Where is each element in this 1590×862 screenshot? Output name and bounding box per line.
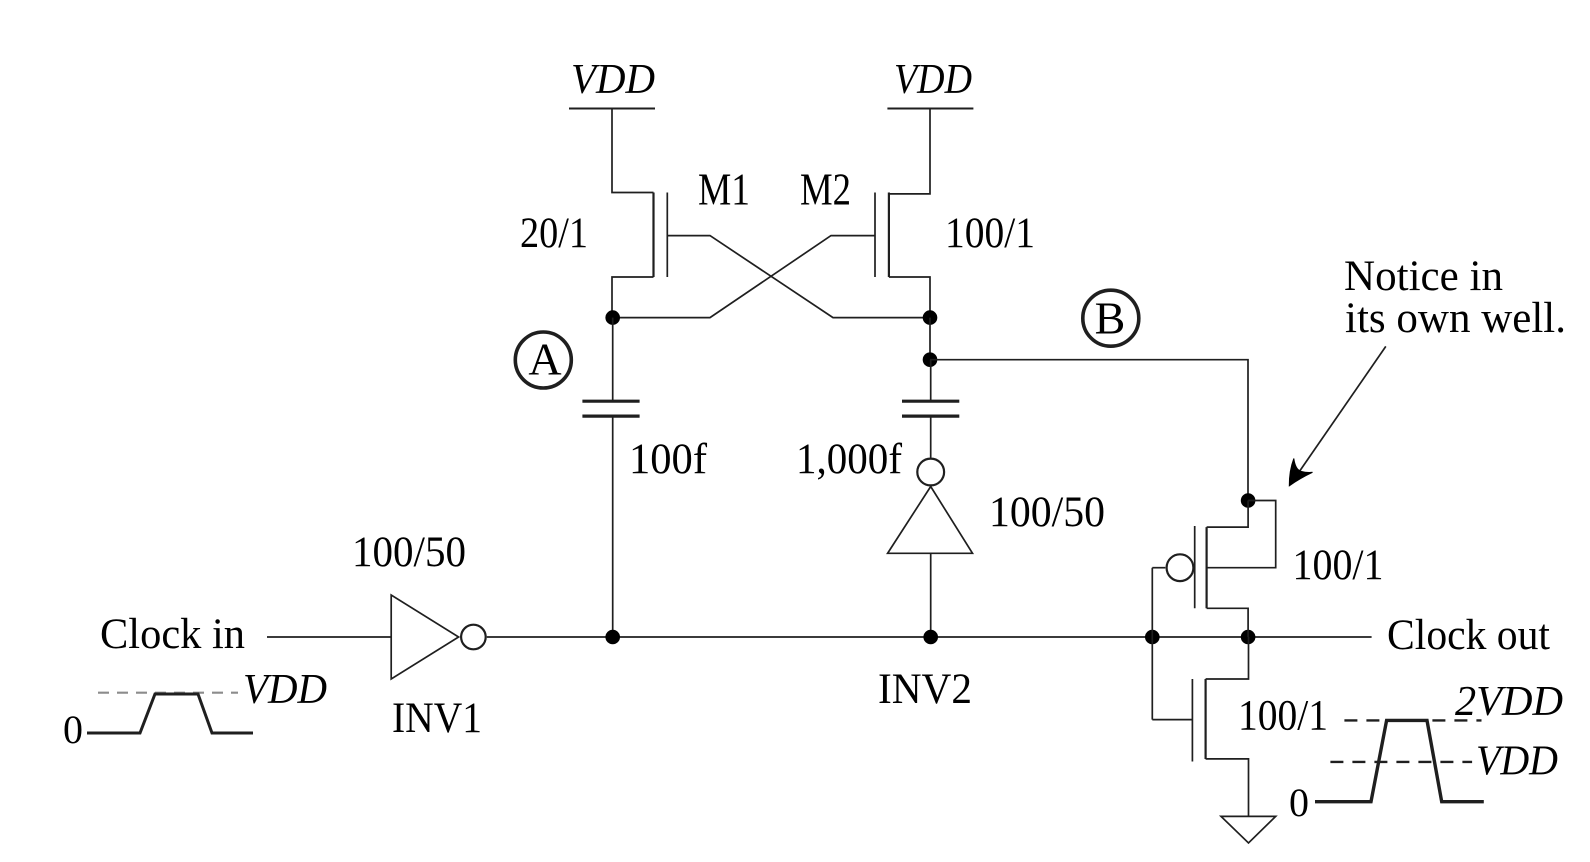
input waveform clock pulse bbox=[87, 694, 253, 733]
svg-text:VDD: VDD bbox=[571, 57, 655, 103]
wire M1 gate cross-coupled to M2 source node bbox=[667, 236, 930, 318]
svg-text:100/1: 100/1 bbox=[945, 210, 1035, 257]
node dot PMOS well tie bbox=[1241, 493, 1256, 508]
svg-text:100/1: 100/1 bbox=[1293, 542, 1384, 589]
svg-text:Clock out: Clock out bbox=[1387, 612, 1550, 659]
svg-text:VDD: VDD bbox=[243, 667, 327, 713]
wire capacitor 1000f to INV2 bubble bbox=[930, 416, 932, 458]
power rail VDD right bbox=[887, 108, 973, 110]
wire capacitor 100f to clock line bbox=[612, 416, 614, 637]
wire clock in to INV1 bbox=[267, 636, 391, 638]
svg-text:1,000f: 1,000f bbox=[796, 436, 903, 483]
node dot clock line at INV2 bbox=[923, 630, 938, 645]
node A junction dot bbox=[605, 310, 620, 325]
svg-text:INV1: INV1 bbox=[392, 695, 482, 742]
output waveform clock pulse bbox=[1315, 720, 1484, 801]
svg-text:VDD: VDD bbox=[1476, 739, 1558, 785]
node dot B branch bbox=[923, 352, 938, 367]
output waveform VDD level dashed bbox=[1330, 761, 1472, 763]
svg-text:INV2: INV2 bbox=[878, 666, 972, 713]
wire M2 source to node bbox=[889, 277, 930, 318]
svg-text:A: A bbox=[528, 334, 561, 385]
node dot clock out bbox=[1241, 630, 1256, 645]
wire M2 gate cross-coupled to node A bbox=[613, 236, 875, 318]
wire node A to capacitor 100f bbox=[612, 318, 614, 402]
ground bbox=[1221, 816, 1276, 843]
input waveform VDD level dashed bbox=[98, 692, 238, 694]
wire VDD right to M2 drain bbox=[889, 109, 930, 194]
svg-text:Notice in: Notice in bbox=[1344, 253, 1503, 300]
svg-text:2VDD: 2VDD bbox=[1455, 679, 1563, 725]
wire VDD left to M1 drain bbox=[612, 109, 654, 193]
svg-text:VDD: VDD bbox=[894, 57, 972, 103]
svg-text:B: B bbox=[1095, 293, 1126, 344]
node label B bbox=[1083, 290, 1139, 346]
wire M1 source to node A bbox=[612, 277, 654, 318]
wire clock line INV1 output to output stage bbox=[487, 636, 1372, 638]
annotation arrow to PMOS well bbox=[1289, 346, 1386, 485]
node dot clock line at capacitor 100f bbox=[605, 630, 620, 645]
wire INV2 input from clock line bbox=[930, 553, 932, 637]
output waveform 2VDD level dashed bbox=[1344, 719, 1481, 721]
svg-text:100/50: 100/50 bbox=[352, 529, 466, 576]
transistor M2 bbox=[875, 193, 889, 278]
power rail VDD left bbox=[569, 108, 655, 110]
inverter INV2 bbox=[888, 459, 973, 554]
svg-text:0: 0 bbox=[1289, 780, 1309, 825]
svg-text:20/1: 20/1 bbox=[520, 210, 588, 257]
svg-text:Clock in: Clock in bbox=[100, 611, 245, 658]
node dot at M2 source bbox=[923, 310, 938, 325]
capacitor C1 100f bbox=[582, 401, 639, 416]
wire node to B branch bbox=[929, 318, 931, 360]
transistor NMOS output 100/1 bbox=[1152, 637, 1248, 816]
node dot clock line at output gates bbox=[1145, 630, 1160, 645]
wire node to capacitor 1000f bbox=[930, 360, 932, 402]
svg-text:100/1: 100/1 bbox=[1238, 692, 1328, 739]
wire node B to output PMOS well bbox=[930, 360, 1248, 501]
svg-text:M2: M2 bbox=[800, 164, 851, 215]
svg-text:0: 0 bbox=[63, 707, 83, 752]
wire output gates bbox=[1151, 568, 1153, 720]
node label A bbox=[515, 332, 571, 388]
svg-text:its own well.: its own well. bbox=[1345, 295, 1566, 342]
inverter INV1 bbox=[391, 595, 486, 679]
svg-text:100f: 100f bbox=[629, 436, 708, 483]
svg-text:100/50: 100/50 bbox=[989, 489, 1105, 536]
annotation Notice in its own well bbox=[1344, 253, 1566, 342]
transistor PMOS output 100/1 bbox=[1152, 501, 1275, 638]
svg-text:M1: M1 bbox=[698, 164, 750, 215]
transistor M1 bbox=[654, 193, 668, 278]
capacitor C2 1,000f bbox=[902, 401, 959, 416]
